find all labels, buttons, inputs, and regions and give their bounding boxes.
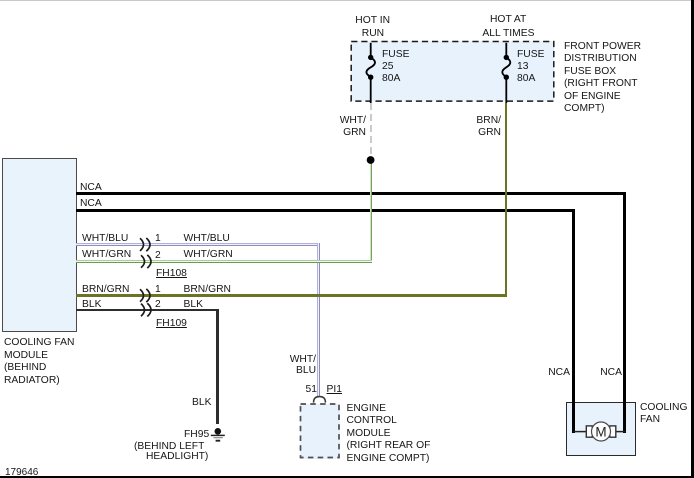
svg-text:M: M <box>595 424 606 439</box>
